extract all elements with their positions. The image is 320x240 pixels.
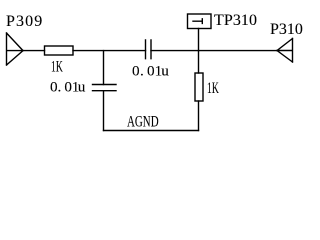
wire port P309 to resistor 1K — [23, 50, 45, 52]
label P309 — [6, 13, 42, 30]
svg-text:AGND: AGND — [127, 114, 159, 131]
svg-text:1K: 1K — [207, 80, 219, 97]
wire series capacitor to port P310, through node B — [151, 50, 277, 52]
AGND rail wire — [104, 130, 199, 132]
resistor 1K (left, horizontal) — [45, 46, 74, 55]
label P310 — [270, 21, 303, 38]
test point TP310 lead wire — [198, 29, 200, 51]
svg-text:P309: P309 — [6, 13, 42, 30]
wire resistor to capacitor 0.01u (series), through node A — [73, 50, 146, 52]
svg-text:TP310: TP310 — [214, 12, 257, 29]
value label 1K (right resistor) — [207, 80, 219, 97]
svg-text:0.01u: 0.01u — [132, 62, 169, 79]
svg-text:P310: P310 — [270, 21, 303, 38]
port P310 — [277, 39, 293, 63]
value label 0.01u (shunt capacitor) — [50, 78, 86, 95]
value label 1K (left resistor) — [51, 58, 63, 75]
svg-text:0.01u: 0.01u — [50, 78, 86, 95]
node B branch wire down to resistor 1K (right) — [198, 51, 200, 73]
test point TP310 box — [188, 14, 212, 29]
resistor 1K (right, vertical) — [195, 73, 203, 101]
wire shunt capacitor to AGND rail — [103, 91, 105, 131]
capacitor 0.01u (series, horizontal) — [146, 40, 152, 59]
capacitor 0.01u (shunt, vertical) — [93, 85, 117, 91]
wire right resistor to AGND rail — [198, 101, 200, 131]
value label 0.01u (series capacitor) — [132, 62, 169, 79]
svg-text:1K: 1K — [51, 58, 63, 75]
net label AGND — [127, 114, 159, 131]
label TP310 — [214, 12, 257, 29]
port P309 — [7, 33, 24, 65]
node A branch wire down — [103, 51, 105, 85]
test point TP310 inner probe mark — [193, 19, 202, 24]
